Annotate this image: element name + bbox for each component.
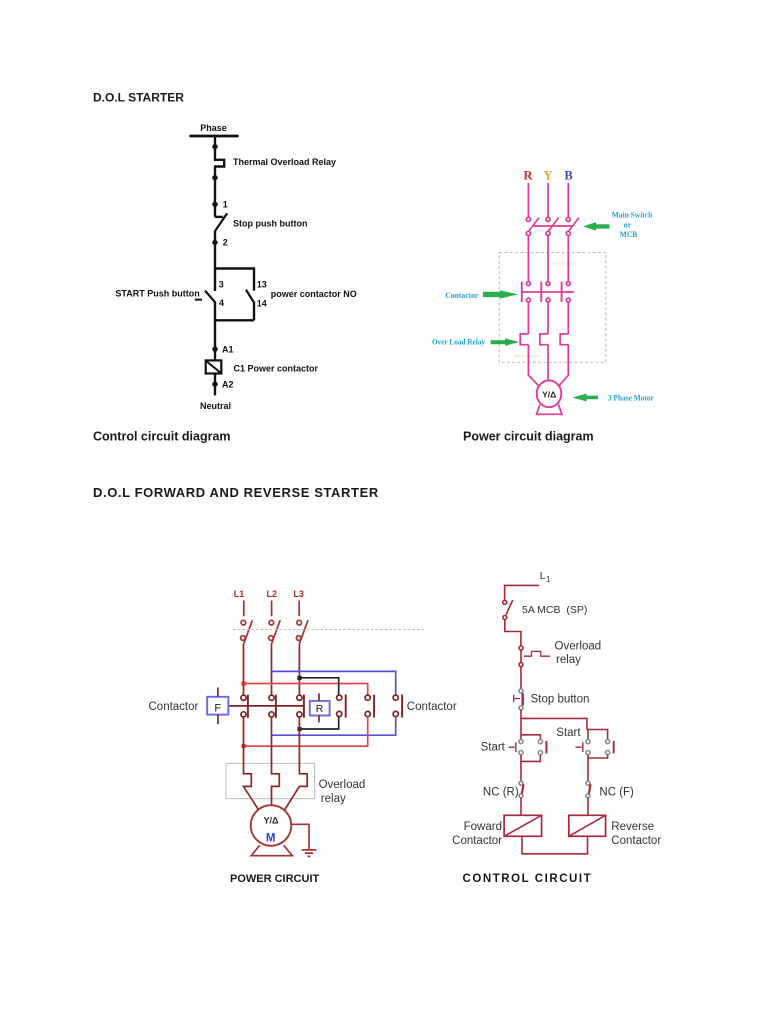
svg-text:R: R [523, 169, 533, 183]
phase bus bar [190, 135, 239, 138]
start button F contact bar [545, 741, 547, 753]
svg-text:M: M [266, 833, 276, 845]
svg-text:3: 3 [219, 279, 224, 289]
overload relay enclosure [226, 764, 315, 799]
coil forward contactor (box with diagonal) [504, 815, 541, 836]
svg-text:L1: L1 [234, 589, 245, 599]
junction dot black bottom [297, 727, 301, 731]
wire L2 to MCB [271, 601, 273, 617]
wire coil to neutral [214, 374, 216, 396]
motor base trapezoid [251, 845, 292, 856]
svg-text:www.electricaleasy.com: www.electricaleasy.com [552, 261, 577, 266]
start button R contact bar [613, 741, 615, 753]
wire B overload to motor [559, 345, 568, 386]
main switch pole B: terminals and blade [566, 217, 570, 221]
wire L2 MCB to contact [271, 644, 273, 695]
main switch pole R: terminals and blade [526, 217, 530, 221]
stop button actuator [514, 695, 520, 702]
MCB pole L2: terminals and blade [269, 620, 274, 625]
svg-text:D.O.L FORWARD AND REVERSE STAR: D.O.L FORWARD AND REVERSE STARTER [93, 485, 379, 500]
MCB pole L1: terminals and blade [241, 620, 246, 625]
wire L3 MCB to contact [298, 644, 300, 695]
wire stub terminal 14 [253, 301, 255, 320]
contactor F pole 2: terminals and bar [269, 695, 274, 700]
start button F: loop top [521, 735, 540, 740]
svg-text:Foward: Foward [464, 821, 502, 833]
svg-text:Contactor: Contactor [611, 835, 661, 847]
svg-text:Contactor: Contactor [452, 835, 502, 847]
svg-text:Y: Y [544, 169, 553, 183]
coil F stub bottom [217, 715, 219, 725]
dashed enclosure box [499, 253, 606, 363]
start button F: loop bottom [521, 755, 540, 762]
wire blue loop bottom [272, 716, 396, 735]
MCB linkage dashed line [233, 629, 425, 631]
contactor R pole 2: terminals and bar [365, 695, 370, 700]
svg-text:relay: relay [556, 654, 581, 666]
wire R contactor to overload [527, 302, 529, 334]
svg-text:Y/Δ: Y/Δ [542, 389, 556, 399]
overload relay heater B [560, 334, 568, 345]
wire L1 to MCB [243, 601, 245, 617]
svg-text:2: 2 [223, 238, 228, 248]
svg-text:14: 14 [257, 298, 267, 308]
stop push button NC contact [215, 216, 223, 218]
svg-text:Overload: Overload [555, 641, 602, 653]
wire blue loop top (L2 to aux contact) [272, 671, 396, 695]
wire branch to right leg [521, 718, 587, 729]
svg-text:Stop button: Stop button [531, 693, 590, 705]
svg-text:Start: Start [481, 741, 506, 753]
wire start R to NC(F) [587, 758, 589, 781]
MCB terminal bottom [503, 616, 507, 620]
wire overload relay to stop button [214, 167, 216, 217]
wire phase to overload relay [214, 136, 216, 160]
contactor linkage rail F to R [229, 705, 305, 707]
junction dot below phase bar [212, 144, 218, 149]
wire start F to NC(R) [520, 761, 522, 781]
svg-text:1: 1 [223, 199, 228, 209]
overload relay heater R [520, 334, 528, 345]
wire start button to coil [214, 303, 216, 361]
main switch tie bar [533, 225, 573, 227]
svg-text:Contactor: Contactor [407, 701, 457, 713]
overload relay heater Y [540, 334, 548, 345]
wire black loop top (L3 to aux contact) [299, 678, 338, 695]
node A1 (terminal dot) [212, 347, 218, 352]
start button R actuator [576, 742, 583, 752]
coil R stub top [318, 693, 320, 701]
MCB pole L3: terminals and blade [297, 620, 302, 625]
wire overload to stop button [520, 650, 522, 689]
svg-text:MCB: MCB [620, 230, 638, 239]
wire R switch to contactor [527, 236, 529, 282]
wire NC(F) to reverse coil [587, 798, 589, 816]
arrow overload relay (green, right) [491, 338, 519, 346]
arrow 3 phase motor (green, left) [572, 394, 598, 402]
wire Y overload to motor [547, 345, 549, 381]
junction dot black top [297, 676, 301, 680]
wire Y contactor to overload [547, 302, 549, 334]
main switch pole Y: terminals and blade [546, 217, 550, 221]
svg-text:A2: A2 [222, 379, 234, 389]
svg-text:3 Phase Motor: 3 Phase Motor [608, 392, 654, 402]
wire L3 to MCB [298, 601, 300, 617]
wire Y switch to contactor [547, 236, 549, 282]
wire B contactor to overload [567, 302, 569, 334]
svg-text:Main Switch: Main Switch [612, 211, 653, 220]
stop button terminal top [519, 689, 523, 693]
wire stub terminal 3 [214, 269, 216, 292]
svg-text:or: or [624, 221, 632, 230]
stop button terminal bottom [519, 706, 523, 710]
wire R overload to motor [528, 345, 538, 386]
NC(F) interlock contact [586, 781, 590, 785]
coil C1 power contactor (box with diagonal) [206, 360, 222, 373]
start button F terminals [519, 740, 523, 744]
overload terminal top [519, 646, 523, 650]
contactor F pole 1: terminals and bar [241, 695, 246, 700]
wire stop button to branch node [214, 230, 216, 268]
overload heater L1 [244, 717, 259, 811]
svg-text:Contactor: Contactor [149, 701, 199, 713]
node 1 (terminal dot) [212, 202, 218, 207]
svg-text:NC (R): NC (R) [483, 786, 519, 798]
svg-text:C1 Power contactor: C1 Power contactor [234, 363, 319, 373]
svg-text:Stop push button: Stop push button [233, 218, 307, 228]
wire L1 MCB to contact [243, 644, 245, 695]
svg-text:5A MCB (SP): 5A MCB (SP) [522, 604, 587, 616]
wire B down to main switch [567, 183, 569, 217]
stop button blade [522, 693, 524, 705]
start push button NO contact [205, 291, 216, 303]
wire Y down to main switch [547, 183, 549, 217]
svg-text:relay: relay [321, 793, 346, 805]
svg-text:F: F [214, 703, 221, 715]
wire black loop bottom [299, 716, 338, 729]
svg-text:power contactor NO: power contactor NO [271, 289, 357, 299]
contactor R pole 3: terminals and bar [393, 695, 398, 700]
wire R down to main switch [527, 183, 529, 217]
wire red loop top (L1 to aux contact) [244, 684, 368, 696]
wire NC(R) to forward coil [520, 798, 522, 816]
start button R: loop bottom [588, 755, 608, 758]
svg-text:Power circuit diagram: Power circuit diagram [463, 430, 594, 444]
motor M (Y/Delta) [537, 380, 562, 407]
wire stop to branch [520, 710, 522, 735]
svg-text:Start: Start [556, 727, 581, 739]
svg-text:L2: L2 [267, 589, 278, 599]
svg-text:L: L [540, 570, 546, 582]
svg-text:A1: A1 [222, 344, 234, 354]
NC(R) interlock contact [519, 781, 523, 785]
overload relay trip contact [524, 651, 550, 656]
power contactor NO auxiliary contact 13-14 [246, 290, 253, 302]
wire common return bottom [522, 836, 588, 854]
ground wire from motor [291, 824, 309, 849]
coil reverse contactor (box with diagonal) [569, 815, 606, 836]
junction dot red bottom [242, 744, 246, 748]
start button R terminals [586, 740, 590, 744]
MCB terminal top [503, 600, 507, 604]
start button R: loop top [587, 730, 608, 740]
contactor F pole 3: terminals and bar [297, 695, 302, 700]
arrow main switch (green, left) [583, 222, 610, 231]
contactor linkage rail [521, 291, 574, 293]
coil F stub top [217, 688, 219, 697]
ground symbol [302, 850, 317, 856]
svg-text:CONTROL CIRCUIT: CONTROL CIRCUIT [463, 873, 593, 885]
svg-text:Contactor: Contactor [445, 291, 478, 300]
svg-text:NC (F): NC (F) [599, 786, 634, 798]
svg-text:13: 13 [257, 279, 267, 289]
svg-text:Control circuit diagram: Control circuit diagram [93, 430, 231, 444]
motor M (Y/Delta) [251, 805, 292, 846]
svg-text:Phase: Phase [200, 123, 227, 133]
wire MCB to overload [505, 620, 521, 646]
contactor pole R: terminals and bar [526, 282, 530, 286]
overload heater L2 [272, 717, 280, 806]
overload heater L3 [284, 717, 307, 811]
svg-text:POWER CIRCUIT: POWER CIRCUIT [230, 873, 320, 885]
svg-text:L3: L3 [293, 589, 304, 599]
wire parallel branch top [214, 269, 254, 291]
svg-text:Neutral: Neutral [200, 401, 231, 411]
svg-text:1: 1 [546, 575, 551, 584]
contactor pole B: terminals and bar [566, 282, 570, 286]
coil box R [310, 701, 330, 716]
svg-text:Thermal Overload Relay: Thermal Overload Relay [233, 157, 336, 167]
junction dot below overload relay [212, 175, 218, 180]
start button F actuator [509, 742, 516, 752]
overload terminal bottom [519, 663, 523, 667]
wire L1 feeder [505, 585, 540, 600]
contactor R pole 1: terminals and bar [337, 695, 342, 700]
svg-text:4: 4 [219, 298, 224, 308]
svg-text:Over Load Relay: Over Load Relay [432, 338, 485, 347]
wire B switch to contactor [567, 236, 569, 282]
motor base trapezoid [537, 405, 562, 415]
arrow contactor (green, right) [483, 290, 518, 298]
coil R stub bottom [318, 716, 320, 723]
junction dot red top [242, 682, 246, 686]
svg-text:Overload: Overload [319, 779, 366, 791]
svg-text:D.O.L STARTER: D.O.L STARTER [93, 91, 184, 105]
wire parallel branch bottom [214, 319, 254, 321]
node 2 (terminal dot) [212, 240, 218, 245]
svg-text:B: B [564, 169, 572, 183]
wire red loop bottom [244, 716, 368, 746]
svg-text:Y/Δ: Y/Δ [264, 815, 280, 825]
thermal overload relay OL (heater detour) [214, 160, 224, 167]
MCB blade [506, 600, 513, 615]
coil box F [207, 697, 228, 715]
contactor pole Y: terminals and bar [546, 282, 550, 286]
start button actuator dash [195, 299, 202, 301]
node A2 (terminal dot) [212, 382, 218, 387]
svg-text:R: R [316, 703, 324, 715]
svg-text:Reverse: Reverse [611, 821, 654, 833]
svg-text:START Push button: START Push button [115, 289, 199, 299]
